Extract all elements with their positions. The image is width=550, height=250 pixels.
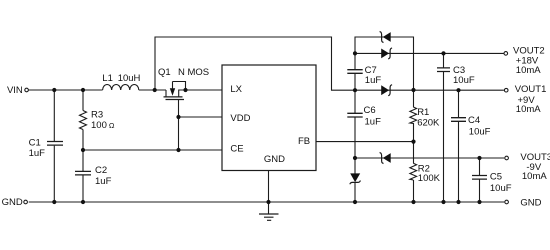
wire C4 branch (458, 90, 460, 202)
svg-text:100K: 100K (418, 173, 441, 184)
wire VOUT1 row (355, 89, 504, 91)
svg-text:GND: GND (2, 197, 23, 208)
wire CE line (83, 149, 222, 151)
wire D5 branch (354, 158, 356, 202)
wire VOUT2 row (355, 52, 504, 54)
svg-text:10uF: 10uF (453, 75, 475, 86)
node C7 top (353, 51, 357, 55)
svg-text:1uF: 1uF (95, 176, 112, 187)
node GND D5 (353, 200, 357, 204)
diode D5 (350, 173, 361, 184)
svg-text:L1: L1 (102, 73, 113, 84)
svg-text:10mA: 10mA (522, 171, 547, 182)
node gate/VDD (176, 115, 180, 119)
wire C1 branch (53, 90, 55, 202)
svg-text:10uF: 10uF (469, 127, 491, 138)
svg-text:C6: C6 (364, 105, 376, 116)
ground symbol (259, 214, 279, 220)
wire Q1 source to LX pin (186, 89, 223, 91)
capacitor C1 (47, 142, 63, 146)
resistor R1 (410, 107, 417, 123)
capacitor C5 (472, 176, 487, 180)
svg-text:10mA: 10mA (516, 65, 541, 76)
resistor R2 (410, 163, 417, 180)
wire C7 branch (354, 53, 356, 90)
capacitor C6 (347, 113, 362, 117)
svg-text:620K: 620K (417, 117, 440, 128)
wire top rail from switch node to pump (155, 37, 355, 90)
inductor L1 (103, 85, 139, 91)
node GND R2 (411, 200, 415, 204)
node GND C3 (441, 200, 445, 204)
svg-text:C2: C2 (95, 165, 107, 176)
svg-text:10mA: 10mA (516, 104, 541, 115)
wire C6 branch (354, 90, 356, 158)
wire VIN rail (29, 89, 166, 91)
node switch/top-rail (153, 88, 157, 92)
svg-text:C5: C5 (490, 172, 502, 183)
terminal VIN (25, 88, 29, 92)
wire pump top branch (355, 37, 414, 90)
transistor Q1 (164, 82, 186, 100)
node pump (353, 88, 357, 92)
node C5 top (477, 156, 481, 160)
diode D3 (381, 85, 392, 96)
svg-text:FB: FB (298, 136, 310, 147)
node R3/C2/CE (81, 148, 85, 152)
svg-text:VDD: VDD (230, 113, 250, 124)
capacitor C2 (75, 171, 91, 175)
wire C3 branch (443, 53, 445, 202)
wire GND rail (29, 201, 505, 203)
wire R3/C2 branch (82, 90, 84, 202)
node C3 top (441, 51, 445, 55)
diode D4 (380, 153, 391, 164)
wire VDD line (179, 116, 223, 118)
node VIN/R3 (81, 88, 85, 92)
node FB (411, 140, 415, 144)
svg-text:N MOS: N MOS (178, 67, 209, 78)
node VOUT1/R1 (411, 88, 415, 92)
svg-text:LX: LX (230, 84, 242, 95)
svg-text:GND: GND (520, 197, 541, 208)
terminal VOUT1 (504, 88, 508, 92)
wire gate vertical (178, 100, 180, 150)
svg-text:C1: C1 (29, 138, 41, 149)
wire VOUT3 row (355, 157, 504, 159)
IC U1 (222, 65, 316, 171)
wire FB line (316, 141, 414, 143)
svg-text:VOUT1: VOUT1 (515, 84, 547, 95)
node GND C1 (52, 200, 56, 204)
capacitor C4 (451, 118, 466, 122)
svg-text:1uF: 1uF (29, 148, 46, 159)
node GND C4 (456, 200, 460, 204)
capacitor C3 (437, 68, 450, 72)
svg-text:1uF: 1uF (365, 75, 382, 86)
svg-text:CE: CE (230, 143, 243, 154)
terminal GND left (24, 200, 28, 204)
wire R1 branch (413, 90, 415, 142)
capacitor C7 (347, 70, 362, 74)
wire IC GND stub (268, 171, 270, 214)
diode D1 (380, 32, 391, 43)
terminal VOUT2 (504, 52, 508, 56)
svg-text:VIN: VIN (7, 85, 23, 96)
svg-text:Q1: Q1 (158, 67, 171, 78)
node gate/CE (176, 148, 180, 152)
terminal VOUT3 (505, 156, 509, 160)
node GND C5 (477, 200, 481, 204)
svg-text:R1: R1 (417, 107, 429, 118)
node VIN/C1 (52, 88, 56, 92)
wire R2 branch (413, 142, 415, 202)
svg-text:100Ω: 100Ω (91, 120, 115, 131)
svg-text:1uF: 1uF (365, 117, 382, 128)
diode D2 (381, 48, 392, 59)
svg-text:GND: GND (264, 154, 285, 165)
node GND IC (266, 200, 270, 204)
node Q1 source/LX (183, 88, 187, 92)
node C6 bottom/VOUT3 (353, 156, 357, 160)
svg-text:C4: C4 (468, 115, 480, 126)
svg-text:R3: R3 (91, 110, 103, 121)
wire C5 branch (479, 158, 481, 202)
svg-text:10uF: 10uF (490, 183, 512, 194)
node GND C2 (81, 200, 85, 204)
resistor R3 (80, 111, 87, 130)
svg-text:10uH: 10uH (118, 73, 141, 84)
node C4 top (456, 88, 460, 92)
terminal GND right (505, 200, 509, 204)
